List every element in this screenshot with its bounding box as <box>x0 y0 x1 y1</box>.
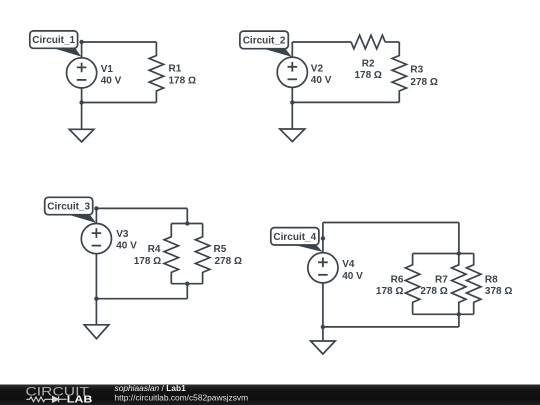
svg-text:V2: V2 <box>311 64 324 75</box>
svg-text:V1: V1 <box>101 64 114 75</box>
node C4 flag <box>321 236 325 240</box>
svg-text:LAB: LAB <box>67 393 93 405</box>
node C4 bus top <box>457 251 461 255</box>
svg-text:R8: R8 <box>485 275 498 286</box>
svg-text:V4: V4 <box>342 259 355 270</box>
svg-text:V3: V3 <box>116 229 129 240</box>
label R6 <box>376 275 404 298</box>
node C4 bus bottom <box>457 312 461 316</box>
logo CIRCUIT <box>26 386 90 398</box>
svg-text:40 V: 40 V <box>116 241 137 252</box>
svg-text:40 V: 40 V <box>311 75 332 86</box>
svg-text:178 Ω: 178 Ω <box>134 256 161 267</box>
svg-text:Circuit_4: Circuit_4 <box>273 232 316 243</box>
resistor R6 <box>405 254 419 315</box>
flag Circuit_4 <box>271 228 323 252</box>
ground C4 <box>311 341 336 354</box>
resistor R7 <box>452 254 466 315</box>
svg-text:178 Ω: 178 Ω <box>354 70 381 81</box>
svg-text:R5: R5 <box>214 244 227 255</box>
flag Circuit_2 <box>240 31 292 57</box>
wire C4 top bus <box>413 253 474 255</box>
svg-text:378 Ω: 378 Ω <box>485 286 512 297</box>
flag Circuit_1 <box>30 31 82 57</box>
wire C2 top right <box>385 41 399 43</box>
footer bar <box>0 385 540 405</box>
label R7 <box>420 275 448 298</box>
svg-text:40 V: 40 V <box>342 271 363 282</box>
svg-text:178 Ω: 178 Ω <box>169 76 196 87</box>
wire C2 top <box>292 41 351 43</box>
wire C2 source bottom lead <box>291 87 293 102</box>
label V3 <box>116 229 137 252</box>
ground C1 <box>69 129 94 142</box>
wire C3 right drop <box>186 208 188 223</box>
wire C1 source bottom lead <box>81 88 83 103</box>
wire C3 ground stem <box>95 299 97 325</box>
wire C4 bottom <box>323 326 459 328</box>
node C3 bus top <box>185 221 189 225</box>
wire C2 source top lead <box>291 42 293 57</box>
wire C3 bottom <box>96 298 187 300</box>
wire C4 bottom drop <box>458 314 460 327</box>
label R2 <box>354 58 381 81</box>
svg-text:R6: R6 <box>391 275 404 286</box>
svg-text:178 Ω: 178 Ω <box>376 286 403 297</box>
wire C3 top <box>96 207 187 209</box>
wire C4 source bottom lead <box>322 283 324 327</box>
node bottom C3 <box>94 297 98 301</box>
label V4 <box>342 259 363 282</box>
wire C3 top bus <box>171 223 202 225</box>
wire C2 bottom <box>292 101 399 103</box>
wire C3 source bottom lead <box>95 254 97 299</box>
node bottom C2 <box>290 100 294 104</box>
node C3 bus bottom <box>185 282 189 286</box>
svg-text:R1: R1 <box>169 64 182 75</box>
label R3 <box>410 64 437 88</box>
svg-text:278 Ω: 278 Ω <box>420 286 447 297</box>
wire C4 top <box>323 222 459 224</box>
resistor R8 <box>467 254 481 315</box>
label V2 <box>311 64 332 87</box>
resistor R2 <box>351 35 385 49</box>
ground C2 <box>280 129 305 142</box>
wire C3 source top lead <box>95 208 97 223</box>
svg-text:R2: R2 <box>362 58 375 69</box>
resistor R4 <box>164 224 178 284</box>
voltage source V2 <box>277 57 307 87</box>
wire C4 source top lead <box>322 223 324 253</box>
wire C1 bottom <box>82 102 157 104</box>
footer title sophiaaslan / Lab1 <box>115 383 249 402</box>
label R4 <box>134 244 161 267</box>
label R1 <box>169 64 196 87</box>
wire C1 top <box>82 41 157 43</box>
flag Circuit_3 <box>45 197 96 223</box>
svg-text:Circuit_3: Circuit_3 <box>47 202 90 213</box>
svg-text:http://circuitlab.com/c582paws: http://circuitlab.com/c582pawsjzsvm <box>115 392 249 402</box>
wire C3 bottom drop <box>186 284 188 299</box>
svg-text:278 Ω: 278 Ω <box>410 77 437 88</box>
logo resistor-diode symbol <box>27 396 67 402</box>
label R5 <box>214 244 242 267</box>
node top C1 <box>79 40 83 44</box>
resistor R1 <box>149 42 163 103</box>
wire C1 source top lead <box>81 42 83 58</box>
voltage source V1 <box>67 58 97 88</box>
ground C3 <box>84 325 109 339</box>
svg-text:Circuit_1: Circuit_1 <box>32 35 75 46</box>
svg-text:40 V: 40 V <box>101 76 122 87</box>
label V1 <box>101 64 122 87</box>
wire C4 bottom bus <box>413 313 474 315</box>
svg-text:R3: R3 <box>410 64 423 75</box>
svg-text:278 Ω: 278 Ω <box>215 256 242 267</box>
voltage source V4 <box>308 253 338 283</box>
wire C4 ground stem <box>322 327 324 341</box>
resistor R5 <box>195 224 209 284</box>
voltage source V3 <box>81 224 111 254</box>
svg-text:Circuit_2: Circuit_2 <box>243 35 286 46</box>
node bottom C4 <box>321 325 325 329</box>
label R8 <box>485 275 512 298</box>
wire C3 bottom bus <box>171 283 202 285</box>
wire C2 ground stem <box>291 102 293 129</box>
svg-text:R4: R4 <box>148 244 161 255</box>
logo LAB <box>67 393 93 405</box>
node top C3 <box>94 206 98 210</box>
svg-text:R7: R7 <box>435 275 448 286</box>
wire C1 ground stem <box>81 103 83 130</box>
node bottom C1 <box>79 100 83 104</box>
resistor R3 <box>392 42 406 102</box>
wire C4 right drop <box>458 223 460 254</box>
